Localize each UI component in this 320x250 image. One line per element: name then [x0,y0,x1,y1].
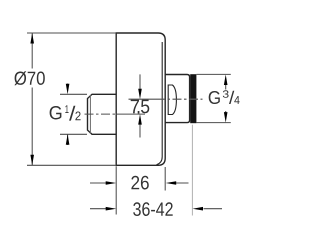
seal ring (black bar) [190,74,196,123]
left stub G1/2 outline [88,94,117,134]
body flange outline [116,33,165,165]
dimension O70 line [31,33,33,165]
dimension G1/2 arrows [67,84,69,146]
centerline over seal ring [190,98,196,100]
right stub G3/4 outline [165,75,189,123]
dimension O70 text [14,71,44,85]
dimension 7.5 text [131,100,139,114]
dimension G3/4 arrow up [224,75,228,86]
dimension 26 arrows [90,182,189,184]
dimension 7.5 arrow down [138,89,142,100]
body flange inner edge line [157,42,163,165]
dimension G3/4 text [209,91,220,104]
left stub thread face line [89,95,91,134]
dimension O70 arrow down [30,155,34,166]
centerline left axis [85,113,117,115]
dimension G3/4 extension lines [197,74,231,122]
dimension O70 arrow up [30,33,34,44]
dimension G3/4 line [225,84,227,113]
dimension G1/2 extension lines [60,94,87,134]
dimension 26 extension lines [116,166,165,214]
dimension 36-42 text [133,202,173,216]
inner cone detail [168,85,176,115]
centerline right axis [129,98,157,100]
dimension G3/4 arrow down [224,112,228,123]
dimension 36-42 extension line [191,125,193,216]
dimension O70 extension lines [27,33,116,165]
dimension 7.5 line segments [139,74,141,137]
dimension 7.5 arrow up [138,114,142,125]
dimension 36-42 arrows [90,208,222,210]
dimension G1/2 text [50,106,62,119]
dimension 26 text [131,176,148,190]
